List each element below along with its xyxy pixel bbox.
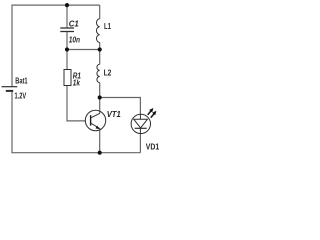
node junction dot C — [98, 95, 102, 99]
wire bottom rail — [12, 152, 140, 154]
svg-text:Bat1: Bat1 — [15, 76, 27, 86]
wire L1 top lead — [99, 5, 101, 19]
svg-text:VD1: VD1 — [146, 141, 160, 151]
wire C1 bottom lead — [66, 32, 68, 50]
node junction dot top C1 — [65, 3, 69, 7]
transistor VT1 — [85, 110, 105, 130]
LED arrow 2 — [151, 111, 157, 118]
wire top rail — [12, 4, 100, 6]
wire C1 top lead — [66, 5, 68, 28]
wire L2 bottom lead — [99, 83, 101, 98]
capacitor C1 — [60, 28, 74, 32]
wire middle horizontal — [67, 49, 100, 51]
wire L2 top lead — [99, 50, 101, 65]
wire left rail upper — [11, 5, 13, 87]
svg-text:L2: L2 — [104, 68, 112, 78]
wire emitter lead — [99, 129, 101, 153]
wire LED bottom lead — [139, 134, 141, 153]
svg-text:VT1: VT1 — [107, 109, 121, 119]
resistor R1 — [64, 70, 71, 86]
svg-text:L1: L1 — [104, 21, 111, 31]
battery Bat1 — [2, 87, 18, 91]
wire collector lead — [99, 98, 101, 114]
wire R1 bottom to base — [67, 86, 86, 121]
node junction dot B — [98, 47, 102, 51]
inductor L2 — [97, 64, 100, 82]
node junction dot D — [98, 151, 102, 155]
inductor L1 — [96, 19, 99, 43]
svg-text:10n: 10n — [69, 35, 80, 45]
LED arrow 1 — [148, 108, 154, 115]
wire R1 top lead — [66, 50, 68, 70]
node junction dot A — [65, 47, 69, 51]
LED VD1 — [131, 114, 150, 133]
svg-text:C1: C1 — [69, 18, 79, 28]
svg-text:1k: 1k — [73, 77, 81, 87]
svg-text:1.2V: 1.2V — [15, 90, 27, 100]
wire L1 bottom lead — [99, 42, 101, 49]
wire top-right to LED — [100, 98, 141, 115]
wire left rail lower — [11, 91, 13, 153]
